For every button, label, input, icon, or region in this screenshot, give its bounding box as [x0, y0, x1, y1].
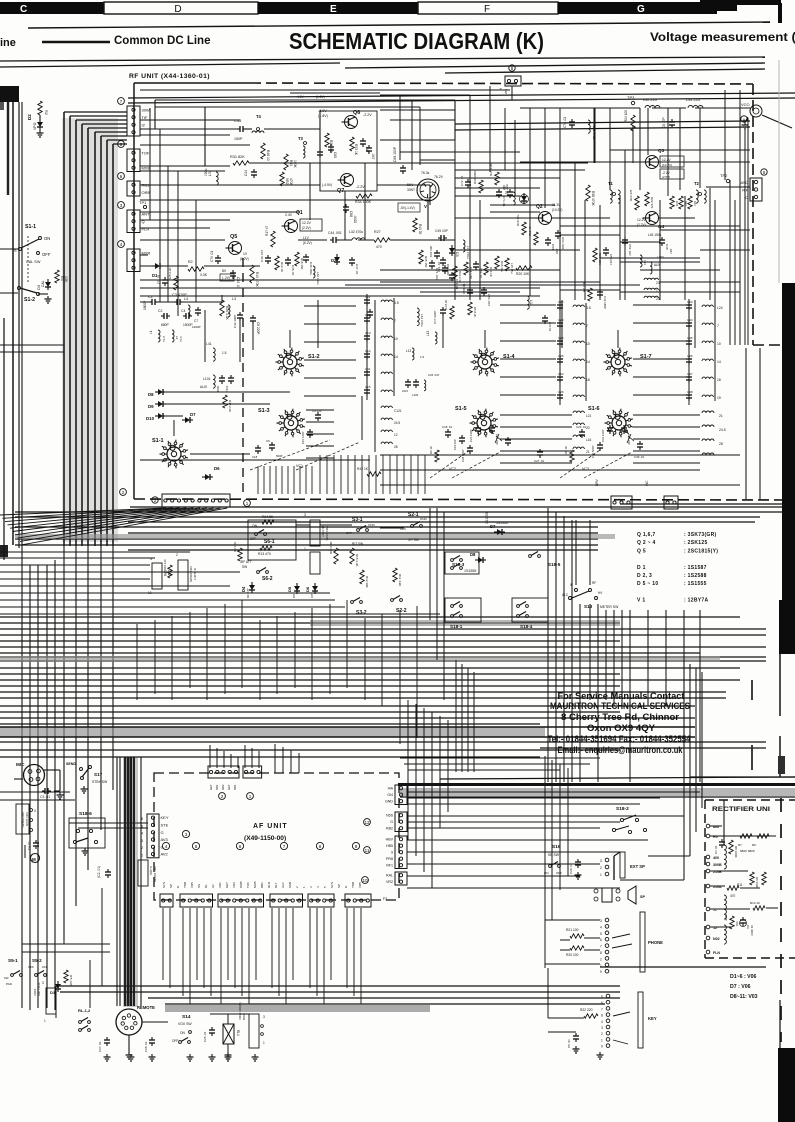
- svg-text:2: 2: [221, 794, 224, 799]
- svg-text:33 400V: 33 400V: [750, 925, 754, 936]
- svg-text:L3: L3: [232, 297, 236, 301]
- svg-text:RB2: RB2: [386, 827, 393, 831]
- wire grid RF row1: [155, 99, 455, 101]
- svg-text:C6: C6: [266, 439, 270, 443]
- wire left bottom: [22, 943, 110, 945]
- transistor Q4: [646, 212, 659, 225]
- svg-text:NB1: NB1: [215, 784, 219, 790]
- svg-text:S18-2: S18-2: [616, 806, 629, 812]
- svg-text:.022: .022: [555, 248, 559, 254]
- svg-text:R13 470: R13 470: [258, 552, 271, 556]
- svg-text:R39 1K: R39 1K: [489, 267, 493, 277]
- wire: [173, 420, 175, 436]
- svg-text:7: 7: [600, 945, 602, 949]
- wire jacks: [560, 939, 570, 941]
- svg-text:RF1: RF1: [386, 864, 393, 868]
- svg-text:-2.2V: -2.2V: [356, 185, 365, 189]
- legend DC line sample: [42, 41, 110, 43]
- connector circled 2: [120, 489, 127, 496]
- svg-text:R20 10K: R20 10K: [516, 272, 530, 276]
- svg-text:M: M: [32, 857, 36, 862]
- capacitor C67 .047: [366, 147, 372, 149]
- svg-text:T4: T4: [256, 114, 262, 119]
- svg-text:R46: R46: [675, 201, 679, 207]
- svg-text:R14 56: R14 56: [262, 515, 273, 519]
- zone bar G (black): [558, 2, 717, 14]
- left edge wire: [3, 318, 5, 560]
- connector J1 300A/TIF: [127, 106, 140, 136]
- transistor Q3: [646, 156, 659, 169]
- svg-text:10: 10: [148, 591, 152, 595]
- svg-text:10: 10: [362, 878, 368, 883]
- connector J2 TOF/MXB: [127, 149, 140, 172]
- svg-text:GND: GND: [385, 800, 393, 804]
- svg-text:: 3SK73(GR): : 3SK73(GR): [684, 532, 717, 538]
- svg-text:OFF: OFF: [556, 871, 562, 875]
- svg-text:TIF: TIF: [142, 115, 149, 120]
- svg-text:ON: ON: [252, 524, 258, 528]
- svg-text:SCHEMATIC DIAGRAM (K): SCHEMATIC DIAGRAM (K): [289, 28, 544, 54]
- svg-text:VR3: VR3: [232, 882, 236, 888]
- svg-text:10: 10: [586, 342, 590, 346]
- rotary switch S1-2: [283, 355, 297, 369]
- svg-text:RIT SW: RIT SW: [352, 542, 363, 546]
- switch S6-2: [257, 571, 260, 574]
- svg-text:12.2V: 12.2V: [637, 218, 646, 222]
- inductor L1 2.7u: [158, 330, 160, 342]
- resistor R8 100K: [729, 840, 733, 854]
- wire middle section: [429, 508, 431, 620]
- svg-text:Email:- enquiries@mauritron.co: Email:- enquiries@mauritron.co.uk: [558, 745, 683, 755]
- svg-text:RL-1,2: RL-1,2: [78, 1008, 91, 1013]
- svg-text:TOF: TOF: [246, 882, 250, 888]
- svg-text:C28 .01: C28 .01: [144, 1041, 148, 1052]
- svg-text:ORB: ORB: [239, 881, 243, 888]
- diode D1b: [55, 984, 61, 989]
- capacitor C53 .022: [545, 239, 551, 241]
- svg-text:L4: L4: [184, 297, 188, 301]
- svg-text:S1-2: S1-2: [24, 297, 35, 303]
- capacitor C76 .01: [569, 121, 575, 123]
- svg-text:ONO: ONO: [368, 523, 376, 527]
- svg-text:1.5: 1.5: [222, 351, 227, 355]
- svg-text:C22: C22: [558, 300, 564, 304]
- capacitor C47 .01: [349, 259, 355, 261]
- halftone bottom band: [165, 1005, 430, 1012]
- svg-text:ON: ON: [42, 965, 47, 969]
- svg-text:L40 22u: L40 22u: [643, 98, 657, 102]
- resistor R2 1.3K: [38, 101, 42, 115]
- svg-text:VR4 1K(B): VR4 1K(B): [325, 526, 329, 540]
- svg-text:R41 35: R41 35: [418, 224, 422, 235]
- diode D6b: [312, 586, 318, 591]
- rotary switch S1-1b: [167, 447, 181, 461]
- svg-text:2: 2: [176, 553, 178, 557]
- svg-text:C76 .01: C76 .01: [563, 117, 567, 128]
- svg-text:AV2: AV2: [161, 852, 169, 857]
- wire: [298, 239, 327, 241]
- halftone band 3: [0, 727, 545, 737]
- svg-text:8 Cherry Tree Rd, Chinnor: 8 Cherry Tree Rd, Chinnor: [561, 711, 679, 722]
- svg-text:Q4: Q4: [658, 224, 665, 229]
- resistor R31 82K: [233, 161, 249, 165]
- svg-text:Q7: Q7: [337, 188, 344, 194]
- svg-text:C18 .01: C18 .01: [442, 425, 453, 429]
- diode D8: [158, 389, 163, 395]
- rotary switch S1-4: [478, 355, 492, 369]
- resistor R16b 47u: [495, 256, 499, 269]
- resistor R19 47: [534, 232, 538, 245]
- svg-text:KB SW: KB SW: [548, 853, 560, 857]
- svg-text:L102: L102: [412, 393, 419, 397]
- transformer T2: [699, 193, 702, 196]
- connector row above legend 2: [664, 496, 678, 509]
- svg-text:2: 2: [601, 1032, 603, 1036]
- resistor R4 1.5K: [238, 548, 242, 561]
- connector J5 MXR: [127, 249, 140, 272]
- resistor R29 560: [325, 133, 329, 147]
- svg-text:SW: SW: [242, 565, 247, 569]
- svg-text:(2.5V): (2.5V): [662, 175, 670, 179]
- wire right jack feeds: [683, 660, 685, 880]
- resistor R15 150: [295, 252, 299, 266]
- svg-text:10: 10: [394, 337, 398, 341]
- svg-text:300B: 300B: [713, 863, 722, 867]
- svg-text:9: 9: [391, 851, 393, 855]
- svg-text:2: 2: [600, 957, 602, 961]
- svg-text:L101: L101: [203, 377, 211, 381]
- diode D10: [158, 413, 163, 419]
- wire verticals below S1 switches: [257, 466, 259, 494]
- svg-text:C26 .047: C26 .047: [428, 373, 440, 377]
- AF right connector HBV: [395, 836, 407, 869]
- relay RL1: [223, 1024, 234, 1044]
- svg-text:N5S: N5S: [386, 814, 394, 818]
- svg-text:R6: R6: [752, 843, 756, 847]
- wire mixer feed: [221, 295, 223, 302]
- svg-text:1: 1: [249, 794, 252, 799]
- transistor Q5: [229, 242, 242, 255]
- svg-text:C5 .01: C5 .01: [567, 1039, 571, 1048]
- svg-text:C48 .047: C48 .047: [260, 249, 264, 262]
- resistor R38 470K: [586, 185, 590, 201]
- svg-text:R25 2.2K: R25 2.2K: [168, 267, 172, 280]
- resistor R36 100K: [479, 180, 483, 193]
- svg-text:: 2SC1815(Y): : 2SC1815(Y): [684, 548, 718, 554]
- capacitor C27 .01: [104, 1039, 110, 1041]
- svg-text:7: 7: [601, 1007, 603, 1011]
- svg-text:14: 14: [586, 360, 590, 364]
- svg-text:21: 21: [719, 414, 723, 418]
- svg-text:GET: GET: [227, 784, 231, 790]
- inductor L36 470u: [588, 120, 590, 133]
- svg-text:PAD: PAD: [6, 982, 13, 986]
- svg-text:C25: C25: [558, 354, 564, 358]
- svg-text:C40 560P: C40 560P: [591, 445, 595, 458]
- svg-text:PLR: PLR: [142, 226, 150, 231]
- filter L3 C42: [228, 305, 230, 317]
- capacitor C38 .047: [659, 239, 665, 241]
- svg-text:R11 4.9K: R11 4.9K: [398, 574, 402, 586]
- svg-text:VR5: VR5: [358, 882, 362, 888]
- svg-text:R13 2.2K: R13 2.2K: [458, 271, 462, 283]
- svg-text:100K: 100K: [293, 160, 297, 169]
- zone box F: [418, 2, 558, 14]
- svg-text:STBY SW: STBY SW: [92, 780, 108, 784]
- diode D5: [294, 586, 300, 591]
- capacitor C5 .01: [162, 279, 168, 281]
- resistor R23 470: [635, 196, 639, 210]
- resistor R46 etc cluster: [670, 196, 674, 209]
- resistor R34 100K: [356, 194, 372, 198]
- capacitor C9 33P: [315, 414, 321, 416]
- svg-text:18: 18: [586, 378, 590, 382]
- transformer T4: [257, 128, 260, 131]
- resistor R35 150: [419, 250, 423, 264]
- capacitor C65 .01: [328, 146, 334, 148]
- capacitor C43 150P: [239, 126, 241, 132]
- svg-text:S2-2: S2-2: [396, 608, 407, 614]
- svg-text:7: 7: [586, 324, 588, 328]
- svg-text:A: A: [743, 117, 746, 122]
- svg-text:12.2V: 12.2V: [302, 221, 312, 225]
- svg-text:Oxon OX9 4QY: Oxon OX9 4QY: [587, 722, 656, 733]
- svg-text:R27: R27: [374, 230, 381, 234]
- svg-text:1: 1: [600, 964, 602, 968]
- svg-text:6: 6: [601, 1001, 603, 1005]
- left vertical wire bus: [62, 118, 118, 542]
- diode D8b 1S1555: [478, 557, 483, 563]
- wire: [0, 791, 70, 793]
- speaker SP: [602, 888, 612, 902]
- inductor L44 22u: [688, 106, 703, 109]
- svg-text:3: 3: [263, 1015, 265, 1019]
- svg-text:SS: SS: [197, 884, 201, 888]
- svg-text:14: 14: [394, 355, 398, 359]
- svg-text:C43 .01: C43 .01: [236, 277, 240, 289]
- svg-text:400: 400: [713, 856, 719, 860]
- svg-text:C49 10P: C49 10P: [435, 229, 449, 233]
- svg-text:VR3 10K(B): VR3 10K(B): [189, 566, 193, 582]
- svg-text:L21: L21: [586, 414, 592, 418]
- capacitor C73 .01: [496, 191, 502, 193]
- svg-text:Q 5: Q 5: [637, 548, 646, 554]
- svg-text:3.3K: 3.3K: [200, 273, 208, 277]
- svg-text:R2: R2: [44, 110, 48, 115]
- svg-text:2: 2: [154, 498, 157, 503]
- svg-text:C37: C37: [687, 372, 693, 376]
- svg-text:R5 8.2K: R5 8.2K: [473, 307, 477, 318]
- inductor L42 L13: [435, 332, 437, 344]
- svg-text:SW: SW: [4, 976, 9, 980]
- resistor R14 1.8K: [464, 262, 468, 275]
- wire: [0, 344, 64, 346]
- svg-text:R14 1K: R14 1K: [750, 901, 760, 905]
- resistor R42 1K: [367, 472, 381, 476]
- svg-text:D6: D6: [305, 586, 310, 592]
- svg-text:C36: C36: [687, 354, 693, 358]
- svg-text:7: 7: [394, 319, 396, 323]
- svg-text:1V: 1V: [243, 252, 248, 256]
- svg-text:2.7u: 2.7u: [162, 336, 166, 342]
- svg-text:R15 3.3K: R15 3.3K: [355, 554, 359, 567]
- svg-text:S18-3: S18-3: [452, 562, 465, 567]
- diode D3b: [449, 248, 455, 253]
- diode D2 VFO: [37, 122, 43, 127]
- left bundle lower continuation: [63, 546, 65, 940]
- switch S3-2: [351, 601, 354, 604]
- svg-text:21: 21: [586, 450, 590, 454]
- svg-text:C72 .01: C72 .01: [460, 175, 464, 186]
- svg-text:OFF: OFF: [250, 537, 256, 541]
- svg-text:S1-6: S1-6: [588, 406, 600, 412]
- svg-text:GET: GET: [209, 784, 213, 790]
- svg-text:VOX SW: VOX SW: [178, 1022, 192, 1026]
- wire: [37, 565, 39, 1008]
- svg-text:C39 .01: C39 .01: [634, 455, 645, 459]
- capacitor ladder S1-7: [688, 299, 690, 405]
- svg-text:R4 1.5K: R4 1.5K: [233, 541, 237, 552]
- connector circled 1: [244, 500, 251, 507]
- svg-text:C26: C26: [558, 390, 564, 394]
- svg-text:S1-1: S1-1: [25, 224, 36, 230]
- svg-text:R38 470K: R38 470K: [591, 191, 595, 206]
- svg-text:76.3s: 76.3s: [421, 171, 430, 175]
- svg-text:C15: C15: [365, 385, 371, 389]
- svg-text:C21 120P: C21 120P: [469, 429, 473, 442]
- AF bottom connectors: [160, 894, 173, 907]
- resistor R5 8.2K: [450, 306, 454, 319]
- AF top connector 1: [208, 766, 239, 778]
- svg-text:2: 2: [600, 866, 602, 870]
- wire: [140, 265, 152, 267]
- test point TP2: [726, 179, 729, 182]
- resistor R10 470K: [250, 265, 254, 283]
- svg-text:L35 15u: L35 15u: [510, 263, 514, 274]
- right edge dashed line lower: [780, 798, 782, 1042]
- svg-text:R18 47u: R18 47u: [500, 261, 504, 272]
- svg-text:150P: 150P: [234, 137, 243, 141]
- svg-text:C27 .01: C27 .01: [98, 1041, 102, 1052]
- svg-text:D 1: D 1: [637, 565, 646, 571]
- pot VR4 RIT/XIT: [310, 520, 320, 546]
- svg-text:R16 6.8K: R16 6.8K: [329, 541, 333, 554]
- svg-text:3: 3: [601, 1026, 603, 1030]
- resistor R48 10: [261, 143, 265, 159]
- svg-text:R24 100: R24 100: [624, 110, 628, 122]
- svg-text:S18-5: S18-5: [548, 562, 561, 567]
- svg-text:VR2: VR2: [386, 880, 393, 884]
- resistor R5b: [468, 302, 472, 315]
- svg-text:S1-1: S1-1: [152, 438, 164, 444]
- svg-text:VR1: VR1: [218, 882, 222, 888]
- svg-text:D 5 ~ 10: D 5 ~ 10: [637, 581, 658, 587]
- svg-text:R34 100K: R34 100K: [355, 200, 372, 204]
- capacitor C3 .01: [44, 788, 46, 794]
- svg-text:(-.2V): (-.2V): [222, 276, 230, 280]
- svg-text:OFF: OFF: [28, 965, 34, 969]
- svg-text:2.4V: 2.4V: [285, 213, 293, 217]
- svg-text:6: 6: [600, 938, 602, 942]
- svg-text:C31 120P: C31 120P: [601, 429, 605, 442]
- svg-text:18: 18: [717, 378, 721, 382]
- svg-text:R9 330K: R9 330K: [755, 877, 759, 888]
- svg-text:560P: 560P: [276, 454, 283, 458]
- inductor L14: [527, 296, 529, 309]
- resistor R41 35: [413, 218, 417, 232]
- wire: [300, 128, 320, 130]
- svg-text:C28 .01: C28 .01: [569, 863, 573, 874]
- svg-text:RLT: RLT: [274, 882, 278, 888]
- svg-text:RF: RF: [592, 581, 596, 585]
- svg-text:C7: C7: [194, 319, 198, 323]
- svg-text:S3-1: S3-1: [352, 517, 363, 523]
- svg-text:D8~11: V03: D8~11: V03: [730, 994, 758, 1000]
- wire: [249, 162, 380, 164]
- svg-text:V: V: [424, 204, 427, 209]
- svg-text:R48 10: R48 10: [266, 150, 270, 161]
- halftone band 2b: [0, 656, 720, 662]
- svg-text:C46 150u: C46 150u: [309, 262, 313, 275]
- switch box S18-1: [445, 598, 481, 622]
- svg-text:6: 6: [239, 844, 242, 849]
- inductor L2 4.7u: [172, 330, 174, 342]
- black bar bottom right: [778, 1048, 795, 1122]
- svg-text:R4 8.2K: R4 8.2K: [444, 299, 448, 310]
- svg-text:(2.2V): (2.2V): [302, 226, 311, 230]
- svg-text:AF UNIT: AF UNIT: [253, 823, 288, 830]
- RF unit box: [134, 83, 795, 500]
- capacitor C50 .047: [603, 249, 609, 251]
- svg-text:N02: N02: [713, 937, 720, 941]
- diode D4: [249, 585, 255, 590]
- svg-text:Tel:- 01844-351694 Fax:- 01844: Tel:- 01844-351694 Fax:- 01844-352554: [548, 734, 691, 744]
- svg-text:S18-4: S18-4: [520, 624, 533, 629]
- capacitor C54 .047: [481, 289, 487, 291]
- inductor L34 470u: [463, 240, 465, 252]
- svg-text:IF SHIFT: IF SHIFT: [193, 568, 197, 580]
- rectifier unit box: [705, 799, 795, 801]
- AF top connector 2: [243, 766, 262, 778]
- bottom edge connector row: [162, 494, 230, 507]
- svg-text:20: 20: [586, 426, 590, 430]
- svg-text:C65: C65: [333, 152, 337, 158]
- svg-text:C81 10P: C81 10P: [429, 246, 433, 257]
- svg-text:3: 3: [304, 513, 306, 517]
- inductor L42 470u: [417, 308, 419, 326]
- svg-text:3.5: 3.5: [586, 306, 591, 310]
- wire VCO feed 2: [455, 127, 750, 130]
- switch box S6-1: [248, 520, 296, 560]
- svg-text:C69 150P: C69 150P: [393, 146, 397, 162]
- svg-text:R33 1K: R33 1K: [354, 144, 358, 156]
- svg-text:S5-1: S5-1: [8, 958, 18, 963]
- trimmer cluster VC3: [367, 311, 373, 313]
- svg-text:3: 3: [42, 981, 44, 985]
- capacitor C46 150u: [303, 256, 309, 258]
- svg-text:P101: P101: [225, 385, 229, 392]
- svg-text:19: 19: [717, 396, 721, 400]
- svg-text:C47 .01: C47 .01: [355, 264, 359, 275]
- resistor R30 100K: [284, 154, 288, 170]
- resistor R33 1K: [350, 137, 354, 151]
- transistor Q6: [345, 116, 358, 129]
- resistor R37 3.3K: [495, 172, 499, 185]
- svg-text:GI4: GI4: [387, 793, 393, 797]
- capacitor C81b 10P: [434, 252, 440, 254]
- wire Q2-Q4 row: [552, 217, 610, 219]
- svg-text:D10: D10: [146, 416, 155, 421]
